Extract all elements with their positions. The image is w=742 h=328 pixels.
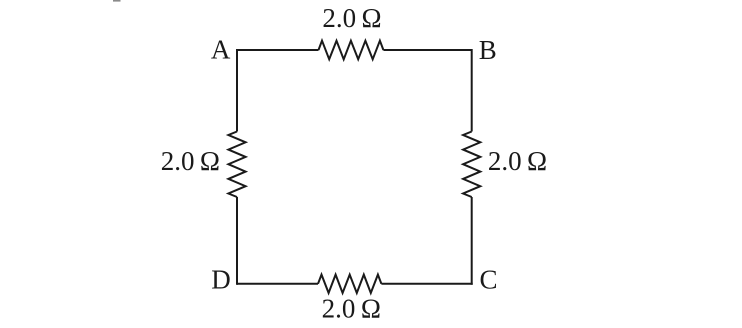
svg-text:C: C [479,265,497,295]
svg-text:2.0 Ω: 2.0 Ω [488,146,547,176]
resistor R2 (right, 2.0 ohm) [463,132,480,198]
wire A-B top-right segment [383,49,471,51]
svg-text:2.0 Ω: 2.0 Ω [322,293,381,323]
wire D-C bottom-left segment [237,283,318,285]
svg-text:2.0 Ω: 2.0 Ω [322,3,381,33]
svg-text:2.0 Ω: 2.0 Ω [161,146,220,176]
wire A-B top-left segment [237,49,319,51]
wire B-C upper segment [471,49,473,132]
resistor R1 (top, 2.0 ohm) [319,41,384,60]
resistor R3 (left, 2.0 ohm) [228,132,245,198]
wire D-C bottom-right segment [381,283,472,285]
resistor R4 (bottom, 2.0 ohm) [318,275,381,293]
svg-text:B: B [479,35,497,65]
wire B-C lower segment [471,197,473,285]
wire A-D lower segment [236,197,238,285]
wire A-D upper segment [236,49,238,132]
svg-text:A: A [211,34,231,64]
svg-text:D: D [211,264,231,294]
